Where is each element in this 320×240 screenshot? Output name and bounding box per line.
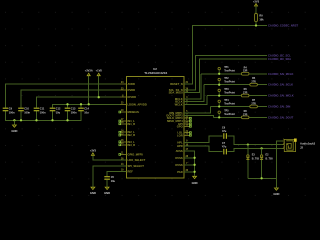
svg-text:DVSS: DVSS	[175, 156, 183, 160]
junction TP1	[218, 73, 220, 75]
wire WCLK riser	[184, 96, 207, 105]
label CAUDIO_SAI_MCLK	[268, 72, 293, 76]
svg-text:HPR: HPR	[177, 144, 183, 148]
svg-text:3: 3	[283, 147, 284, 149]
svg-text:GPIO_MFP5: GPIO_MFP5	[128, 152, 144, 156]
ground chip	[192, 176, 198, 186]
pin 28 DVSS	[175, 155, 190, 160]
svg-text:+1V8: +1V8	[96, 69, 103, 73]
svg-text:GND: GND	[104, 191, 110, 195]
svg-text:CAUDIO_SAI_DIN: CAUDIO_SAI_DIN	[268, 105, 290, 109]
svg-text:DVSS: DVSS	[175, 163, 183, 167]
testpoint TP2	[218, 77, 235, 85]
junction LDOIN caps	[66, 103, 90, 105]
wire DIN riser	[184, 107, 211, 113]
pin 21 LOL	[177, 130, 191, 135]
pin 16 IN3_L	[119, 139, 135, 144]
wire gnd stub	[13, 120, 15, 124]
svg-text:TestPoint: TestPoint	[224, 113, 235, 116]
pin 31 RESET_N	[170, 81, 190, 86]
testpoint TP5	[218, 110, 235, 118]
svg-text:10u: 10u	[111, 180, 116, 183]
wire DVDD rail	[21, 90, 126, 108]
resistor R7	[250, 99, 258, 108]
svg-text:B_T05: B_T05	[252, 157, 260, 160]
pin 12 GPO	[177, 124, 192, 129]
pin 30 SDA_MOSI	[169, 90, 191, 95]
svg-text:+3V3: +3V3	[90, 148, 97, 152]
label CAUDIO_SAI_WCLK	[268, 94, 294, 98]
svg-text:CAUDIO_SAI_DOUT: CAUDIO_SAI_DOUT	[268, 115, 294, 119]
wire AVDD rail	[6, 84, 127, 108]
wire cap bank ground rail	[6, 111, 82, 120]
pin 27 GPI	[178, 121, 191, 126]
resistor R5	[250, 77, 258, 86]
svg-text:REF: REF	[128, 170, 134, 174]
wire E3 drop	[247, 145, 249, 179]
wire LDO_SELECT	[93, 155, 126, 160]
ground jack	[273, 187, 279, 196]
wire HPR to C7	[184, 146, 223, 151]
wire BCLK riser	[184, 85, 204, 102]
svg-text:100n: 100n	[9, 111, 15, 114]
pin 26 LDO_SELECT	[120, 157, 146, 162]
svg-text:AVDD: AVDD	[128, 82, 135, 86]
junction E2	[260, 147, 262, 149]
svg-text:IN1_R: IN1_R	[128, 122, 136, 126]
svg-text:C11: C11	[40, 108, 45, 111]
tvs E2	[260, 154, 273, 161]
svg-text:1: 1	[283, 139, 284, 141]
pin 22 LOR	[177, 133, 191, 138]
svg-text:TLV320AIC3204: TLV320AIC3204	[144, 71, 167, 75]
svg-text:AVSS: AVSS	[176, 149, 183, 153]
power +3V3 select	[90, 148, 97, 155]
svg-text:47u: 47u	[222, 145, 227, 148]
wire HPL to C6	[184, 136, 223, 142]
svg-text:C12: C12	[56, 108, 61, 111]
wire +1V8 feed	[98, 76, 100, 98]
pin 16 HPR	[177, 143, 190, 148]
junction TP4	[218, 105, 220, 107]
junction TP2	[218, 84, 220, 86]
wire LDOIN rail	[53, 104, 127, 107]
power +1V8	[96, 69, 103, 76]
svg-text:MICBIAS: MICBIAS	[128, 110, 140, 114]
capacitor C6	[222, 127, 227, 139]
pin 8 IOVDD	[120, 94, 136, 99]
junction R9	[255, 24, 257, 26]
capacitor C12	[50, 108, 61, 115]
wire AVSS DVSS rail	[184, 151, 195, 176]
pin 18 IN1_R	[119, 121, 135, 126]
wire RESET_N net	[184, 26, 267, 84]
resistor R4	[241, 66, 249, 75]
IC U2 TLV320AIC3204 body	[126, 67, 184, 178]
pin 4 MCLK	[175, 96, 190, 101]
junction E3	[247, 143, 249, 145]
svg-text:TestPoint: TestPoint	[224, 91, 235, 94]
resistor R6	[241, 88, 249, 97]
wire +3V3A feed	[88, 76, 90, 105]
svg-text:CAUDIO_I2C_SCL: CAUDIO_I2C_SCL	[268, 53, 291, 57]
wire BCLK row	[204, 84, 267, 86]
capacitor C14	[78, 108, 89, 115]
wire R9 bottom	[255, 22, 257, 26]
pin 11 GPIO_MFP5	[119, 152, 143, 157]
wire MCLK row	[201, 73, 267, 75]
svg-text:47u: 47u	[222, 130, 227, 133]
pin 3 BCLK	[175, 99, 190, 104]
pin 1 MISO_MFP4	[167, 118, 191, 123]
junction DVSS rail	[193, 157, 195, 173]
resistor R8	[241, 110, 249, 119]
svg-text:SDA_MOSI: SDA_MOSI	[169, 91, 183, 95]
svg-text:100n: 100n	[71, 111, 77, 114]
wire C6 to jack	[228, 136, 285, 145]
svg-text:SPI_SELECT: SPI_SELECT	[128, 164, 145, 168]
wire E2 drop	[261, 148, 263, 178]
pin 17 AVSS	[176, 148, 191, 153]
ground SPI_SELECT	[90, 186, 96, 195]
label CAUDIO_SAI_BCLK	[268, 83, 293, 87]
capacitor C7	[222, 142, 227, 154]
wire jack sleeve	[276, 141, 284, 188]
svg-text:CAUDIO_I2C_SDA: CAUDIO_I2C_SDA	[268, 57, 291, 61]
svg-text:TestPoint: TestPoint	[224, 81, 235, 84]
label CAUDIO_SAI_DOUT	[268, 115, 294, 119]
svg-text:+3V3A: +3V3A	[85, 69, 93, 73]
pin 17 IN1_L	[119, 118, 135, 123]
wire I2C SCL	[184, 55, 267, 90]
pin 23 DVDD	[120, 87, 135, 92]
svg-text:+3V3: +3V3	[253, 0, 260, 4]
svg-text:LDO_SELECT: LDO_SELECT	[128, 158, 146, 162]
pin 2 WCLK	[175, 102, 191, 107]
svg-text:PAD: PAD	[177, 170, 183, 174]
tvs E3	[246, 154, 259, 161]
svg-text:J2: J2	[300, 146, 303, 150]
wire SPI_SELECT	[93, 166, 126, 187]
svg-text:AudioJack3: AudioJack3	[300, 142, 316, 146]
svg-text:CAUDIO_SAI_WCLK: CAUDIO_SAI_WCLK	[268, 94, 294, 98]
svg-text:HPL: HPL	[177, 140, 183, 144]
svg-text:27R: 27R	[251, 81, 256, 84]
wire C5 to gnd	[106, 180, 108, 187]
svg-text:B_T05: B_T05	[266, 157, 274, 160]
svg-text:27R: 27R	[243, 113, 248, 116]
wire DOUT row	[214, 116, 267, 118]
testpoint TP3	[218, 88, 235, 96]
svg-text:27R: 27R	[243, 92, 248, 95]
wire cap C14 stub	[80, 104, 82, 107]
ground C5	[104, 186, 110, 195]
svg-text:LOR: LOR	[177, 133, 183, 137]
svg-text:22R: 22R	[243, 70, 248, 73]
svg-text:TestPoint: TestPoint	[224, 102, 235, 105]
capacitor C10	[18, 108, 30, 115]
pin 24 AVDD	[120, 81, 135, 86]
svg-text:CAUDIO_CODEC_NRST: CAUDIO_CODEC_NRST	[268, 24, 298, 28]
pin 5 DIN_MFP1	[169, 110, 190, 115]
pin 13 SPI_SELECT	[120, 163, 144, 168]
wire MCLK riser	[184, 74, 201, 99]
power +3V3 pullup	[253, 0, 260, 6]
label CAUDIO_CODEC_NRST	[268, 24, 298, 28]
wire cap C13 stub	[67, 104, 69, 107]
pin 20 IN3_R	[119, 142, 135, 147]
pin 33 PAD	[177, 169, 190, 174]
wire I2C SDA	[184, 59, 267, 93]
svg-text:27R: 27R	[251, 102, 256, 105]
wire WCLK row	[207, 95, 267, 97]
connector J2 audio jack	[283, 139, 316, 152]
pin 14 IN2_L	[119, 129, 135, 134]
pin 29 SCL_SS_N	[169, 87, 191, 92]
wire R9 top	[255, 6, 257, 13]
ground cap bank	[11, 124, 17, 133]
junction TP5	[218, 116, 220, 118]
svg-text:C14: C14	[84, 108, 89, 111]
svg-text:IOVDD: IOVDD	[128, 95, 137, 99]
junction IOVDD feed	[98, 96, 100, 98]
svg-text:GND: GND	[90, 191, 96, 195]
label CAUDIO_I2C_SDA	[268, 57, 291, 61]
svg-text:GPO: GPO	[177, 124, 183, 128]
svg-text:C13: C13	[71, 108, 76, 111]
capacitor C11	[34, 108, 46, 115]
pin 7 DVSS	[175, 162, 190, 167]
svg-text:100n: 100n	[24, 111, 30, 114]
svg-text:10u: 10u	[84, 111, 89, 114]
capacitor C13	[65, 108, 77, 115]
svg-text:GND: GND	[192, 181, 198, 185]
junction TP3	[218, 94, 220, 96]
pin 32 SCLK_MFP3	[167, 115, 192, 120]
svg-text:2: 2	[283, 143, 284, 145]
label CAUDIO_I2C_SCL	[268, 53, 291, 57]
svg-text:IN2_R: IN2_R	[128, 133, 136, 137]
wire DOUT riser	[184, 116, 214, 118]
svg-text:C10: C10	[24, 108, 29, 111]
label CAUDIO_SAI_DIN	[268, 105, 290, 109]
pin 25 LDOIN_APVDD	[120, 102, 147, 107]
svg-text:RESET_N: RESET_N	[170, 82, 182, 86]
wire jack gnd rail	[248, 177, 277, 179]
capacitor C9	[3, 108, 15, 115]
svg-text:IN3_R: IN3_R	[128, 143, 136, 147]
capacitor C5	[104, 176, 115, 183]
svg-text:LDOIN_APVDD: LDOIN_APVDD	[128, 102, 147, 106]
pin 19 REF	[120, 169, 133, 174]
pin 6 DOUT_MFP2	[166, 113, 190, 118]
svg-text:CAUDIO_SAI_MCLK: CAUDIO_SAI_MCLK	[268, 72, 293, 76]
svg-text:10u: 10u	[56, 111, 61, 114]
wire C7 to jack	[228, 148, 285, 151]
svg-text:GND: GND	[11, 129, 17, 133]
svg-text:10k: 10k	[259, 18, 264, 21]
pin 9 HPL	[177, 140, 190, 145]
svg-text:WCLK: WCLK	[175, 102, 183, 106]
wire DIN row	[210, 106, 267, 108]
wire IOVDD rail	[37, 97, 127, 108]
resistor R9	[255, 13, 265, 21]
junction jack rail	[260, 177, 262, 179]
svg-text:DVDD: DVDD	[128, 88, 136, 92]
testpoint TP4	[218, 99, 235, 107]
pin 15 IN2_R	[119, 132, 135, 137]
svg-text:100n: 100n	[40, 111, 46, 114]
svg-text:CAUDIO_SAI_BCLK: CAUDIO_SAI_BCLK	[268, 83, 293, 87]
pin 10 MICBIAS	[119, 109, 139, 114]
power +3V3A	[85, 69, 93, 76]
wire REF	[107, 172, 126, 177]
junction ground rail	[13, 119, 68, 121]
svg-text:GND: GND	[273, 192, 279, 196]
testpoint TP1	[218, 66, 235, 74]
svg-text:TestPoint: TestPoint	[224, 70, 235, 73]
